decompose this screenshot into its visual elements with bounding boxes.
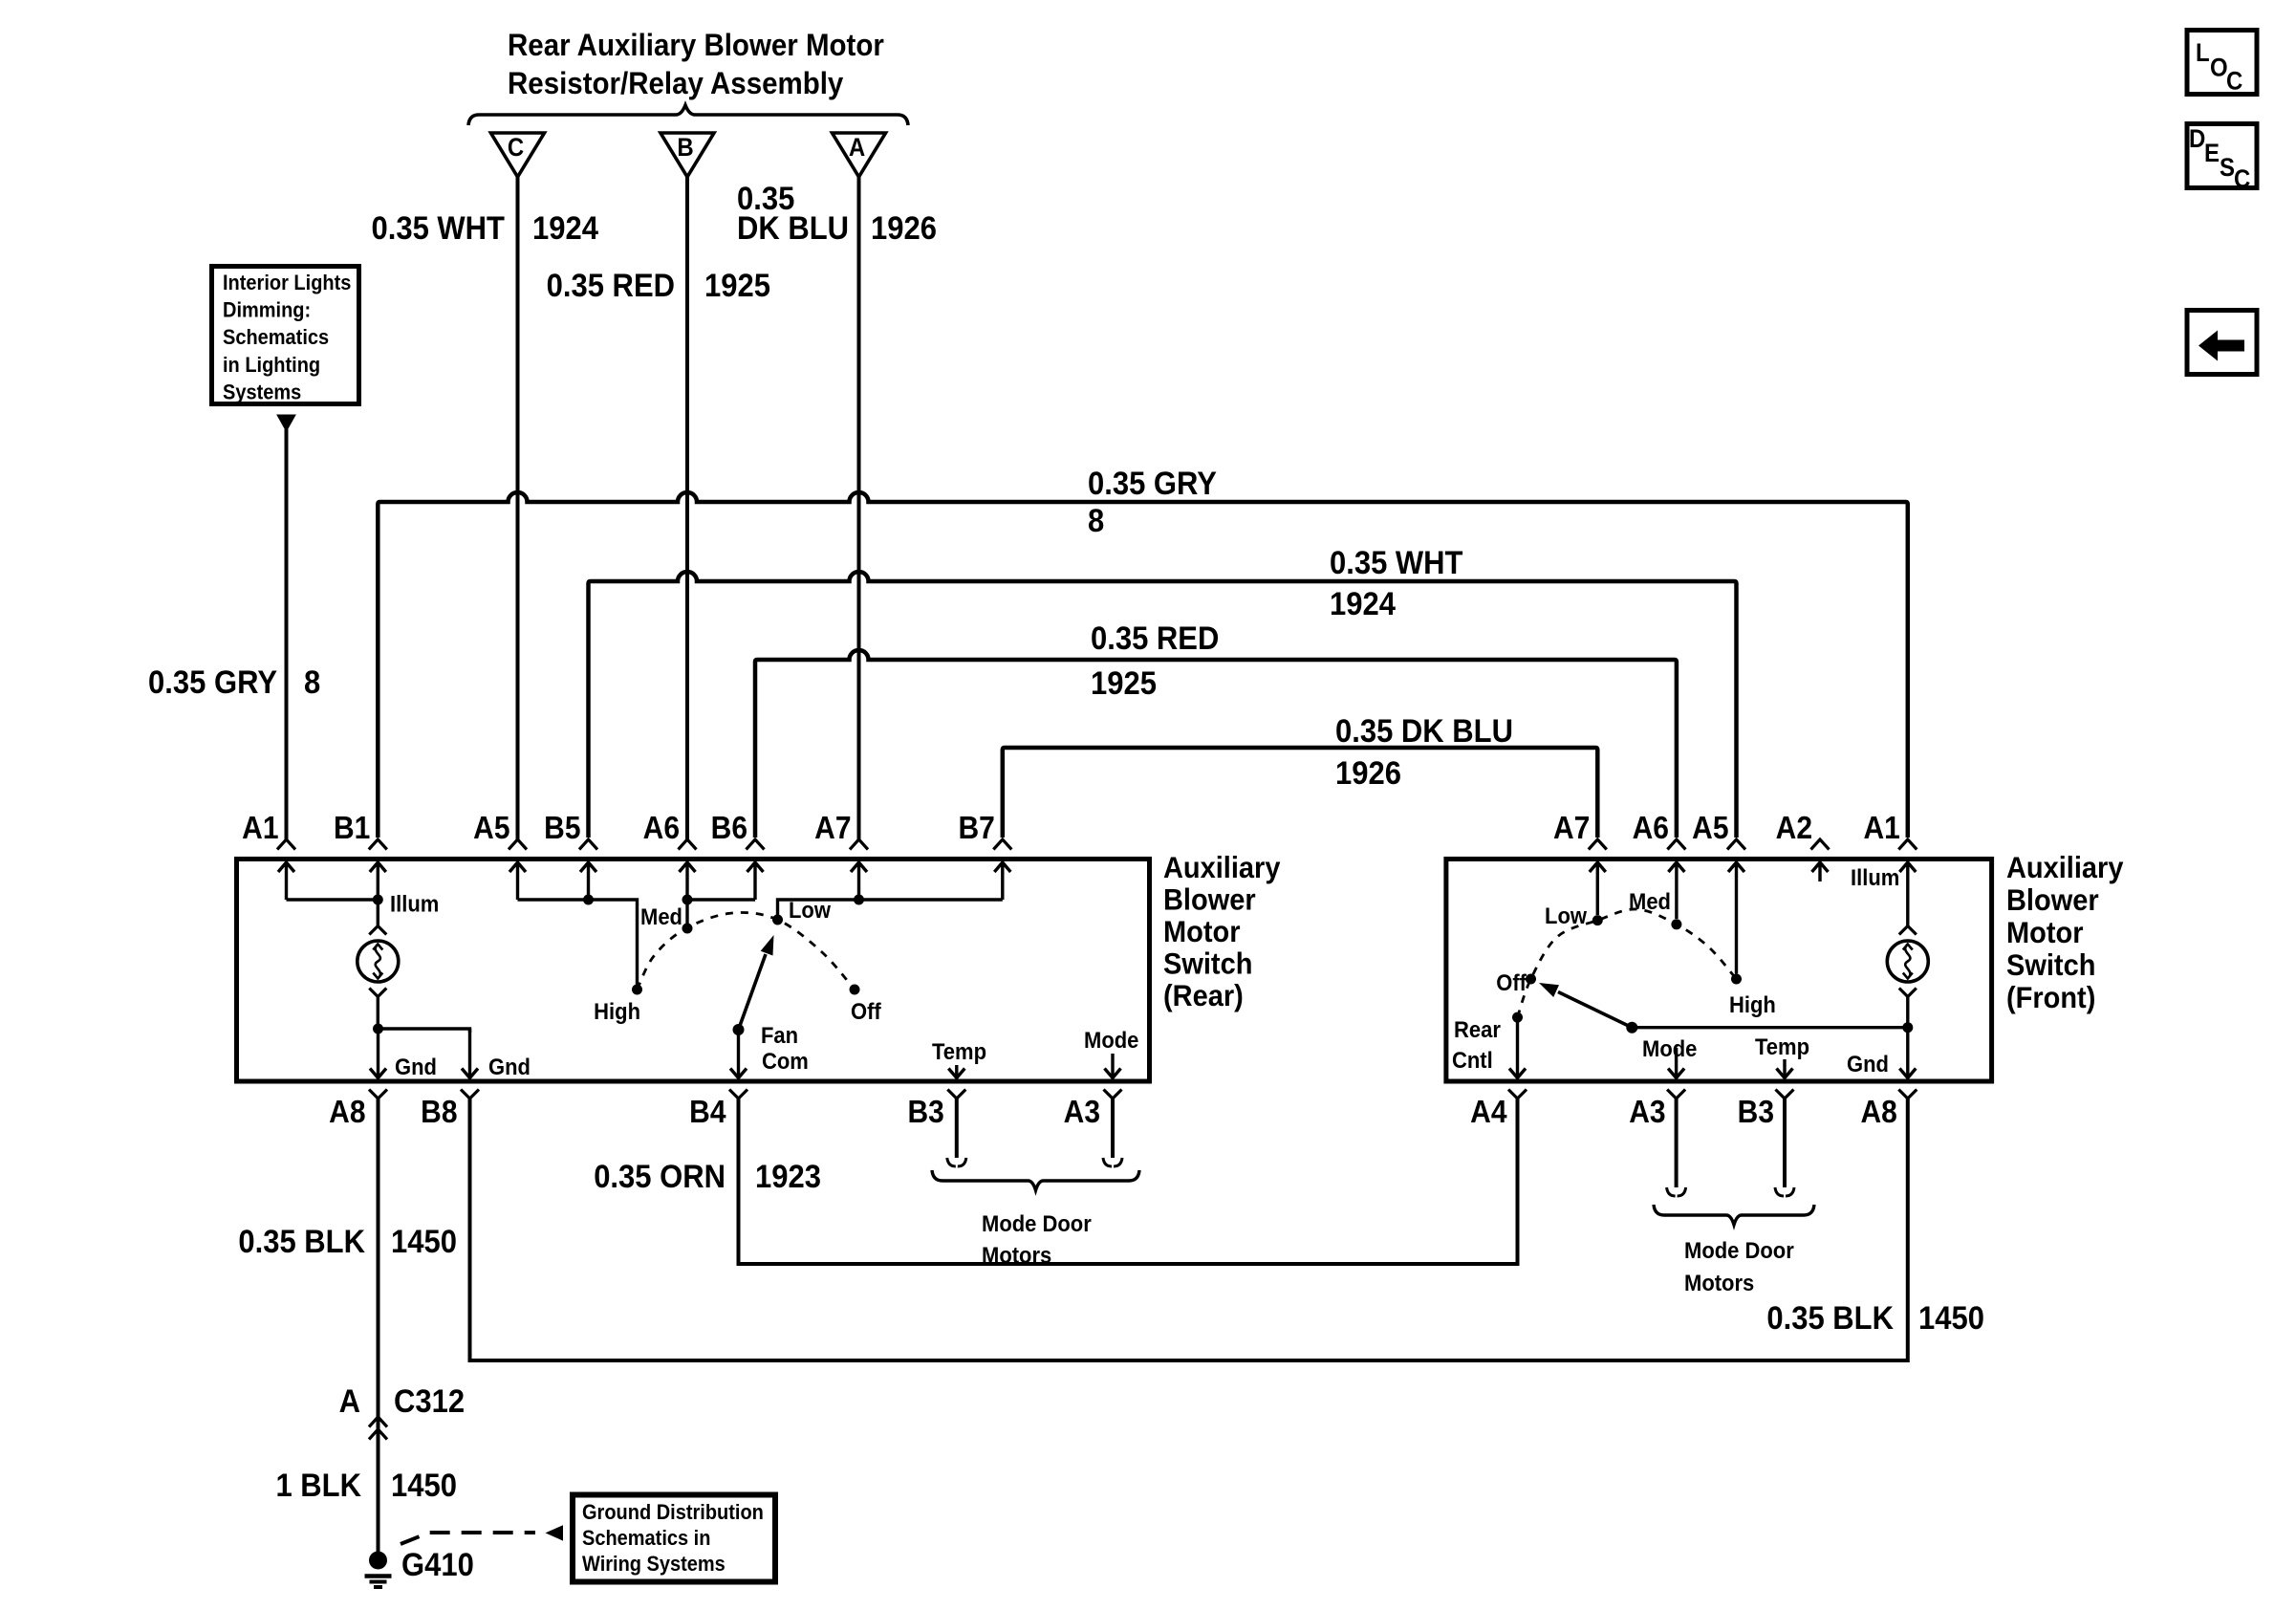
pin A1 internal arrow (rear switch) — [278, 862, 294, 901]
wire 1926 DK BLU bus from pin B7 to front switch pin A7 — [1003, 748, 1598, 838]
wire pin A3 to mode door motors (rear) — [1111, 1099, 1115, 1158]
svg-text:0.35 WHT: 0.35 WHT — [372, 210, 506, 247]
wire 1450 BLK from pin A8 to G410 — [377, 1099, 380, 1562]
pin A5 internal arrow (front) — [1728, 862, 1744, 974]
wire 1924 WHT bus from pin B5 to front switch pin A5 — [589, 572, 1737, 838]
contact Off (rear switch) — [850, 985, 860, 995]
pin A5 connector chevron (rear switch) — [509, 839, 527, 850]
pin B3 connector (front switch bottom) — [1776, 1090, 1794, 1099]
lamp filament symbol (rear) — [373, 945, 382, 979]
Ground Distribution reference box — [573, 1495, 775, 1582]
svg-text:Motors: Motors — [982, 1242, 1051, 1268]
svg-text:G410: G410 — [401, 1547, 474, 1583]
wire lamp to gnd junction (front) — [1906, 997, 1909, 1028]
svg-text:L: L — [2196, 39, 2210, 67]
svg-text:Motor: Motor — [2006, 916, 2084, 950]
svg-text:C: C — [2234, 165, 2250, 193]
svg-text:B3: B3 — [1738, 1094, 1774, 1130]
svg-text:B6: B6 — [711, 810, 747, 846]
pin A6 internal arrow (front) — [1668, 862, 1684, 920]
svg-text:A7: A7 — [1553, 810, 1590, 846]
svg-text:Motor: Motor — [1163, 915, 1241, 949]
contact Low (front switch) — [1592, 915, 1603, 925]
wire illum rail to lamp (rear) — [377, 900, 379, 926]
svg-text:1925: 1925 — [704, 268, 770, 304]
svg-text:A3: A3 — [1629, 1094, 1665, 1130]
svg-text:E: E — [2204, 140, 2220, 167]
pin A8 internal Gnd arrow (rear) — [370, 1029, 386, 1078]
wire 1923 ORN from pin B4 to pin A4 — [739, 1099, 1518, 1264]
svg-text:C312: C312 — [394, 1383, 465, 1420]
svg-text:0.35 GRY: 0.35 GRY — [1088, 466, 1217, 502]
svg-text:C: C — [2226, 67, 2242, 95]
pin A1 connector chevron (front switch) — [1898, 839, 1917, 850]
pin B1 connector chevron (rear switch) — [369, 839, 387, 850]
contact Rear Cntl (front switch) — [1512, 1012, 1523, 1023]
contact High (rear switch) — [632, 985, 642, 995]
lamp connector chevron above (rear) — [369, 926, 386, 935]
pin A2 internal arrow (front) — [1812, 862, 1829, 882]
svg-text:A8: A8 — [1860, 1094, 1896, 1130]
svg-text:0.35 DK BLU: 0.35 DK BLU — [1335, 713, 1513, 750]
svg-text:Motors: Motors — [1684, 1270, 1754, 1295]
pin B8 internal Gnd arrow (rear) — [462, 1029, 478, 1078]
pin A1 connector chevron (rear switch) — [277, 839, 295, 850]
svg-text:O: O — [2210, 54, 2228, 81]
contact Med (rear switch) — [682, 924, 693, 934]
svg-text:S: S — [2220, 154, 2235, 182]
connector cup A3 (rear) — [1103, 1158, 1122, 1166]
svg-text:8: 8 — [1088, 503, 1104, 539]
connector cup B3 (rear) — [947, 1158, 966, 1166]
svg-text:Interior Lights: Interior Lights — [223, 272, 351, 294]
svg-text:Off: Off — [1496, 969, 1527, 995]
pin B3 internal Temp arrow (rear) — [948, 1065, 964, 1078]
contact High (front switch) — [1731, 974, 1742, 985]
wire 8 GRY from Interior Lights box to pin A1 — [285, 429, 289, 839]
svg-text:0.35 RED: 0.35 RED — [547, 268, 675, 304]
svg-text:1450: 1450 — [391, 1224, 457, 1260]
fan switch dashed arc (front) — [1518, 909, 1737, 1017]
svg-text:1923: 1923 — [755, 1159, 821, 1195]
Interior Lights Dimming reference box — [212, 267, 359, 404]
svg-text:A6: A6 — [1633, 810, 1669, 846]
fan switch dashed arc (rear) — [638, 912, 856, 990]
svg-text:0.35 GRY: 0.35 GRY — [148, 664, 277, 701]
svg-text:Mode: Mode — [1084, 1027, 1139, 1053]
pin B3 connector (rear switch bottom) — [947, 1090, 965, 1099]
svg-text:Med: Med — [640, 903, 682, 929]
svg-text:1926: 1926 — [871, 210, 937, 247]
svg-text:A7: A7 — [814, 810, 851, 846]
svg-text:1450: 1450 — [391, 1468, 457, 1504]
back arrow icon — [2199, 331, 2244, 361]
pin A3 internal Mode arrow (front) — [1668, 1048, 1684, 1078]
svg-text:Low: Low — [789, 897, 832, 923]
svg-text:B7: B7 — [958, 810, 994, 846]
mode door motors brace (front) — [1654, 1205, 1814, 1225]
svg-text:High: High — [594, 998, 640, 1024]
pin B8 connector (rear switch bottom) — [461, 1090, 479, 1099]
pin A1 internal arrow (front) — [1899, 862, 1916, 927]
connector triangle C of resistor/relay assembly — [491, 133, 545, 177]
svg-text:Dimming:: Dimming: — [223, 299, 311, 322]
svg-text:Switch: Switch — [2006, 948, 2095, 983]
svg-text:A1: A1 — [1863, 810, 1899, 846]
svg-text:A8: A8 — [329, 1094, 365, 1130]
svg-text:A1: A1 — [242, 810, 278, 846]
inline connector C312 symbol — [369, 1417, 387, 1440]
pin B5 connector chevron (rear switch) — [579, 839, 597, 850]
svg-text:Systems: Systems — [223, 381, 301, 404]
svg-text:1926: 1926 — [1335, 755, 1401, 792]
wire pin B3 to mode door motors (front) — [1783, 1099, 1787, 1187]
svg-text:B1: B1 — [334, 810, 370, 846]
pin A8 internal Gnd arrow (front) — [1899, 1028, 1916, 1078]
svg-text:1450: 1450 — [1918, 1300, 1984, 1337]
svg-text:0.35 ORN: 0.35 ORN — [594, 1159, 726, 1195]
svg-text:Cntl: Cntl — [1452, 1047, 1493, 1073]
svg-text:8: 8 — [304, 664, 320, 701]
pin A4 internal Rear Cntl arrow (front) — [1509, 1017, 1526, 1078]
wire 1926 from connector A to pin A7 — [857, 177, 861, 839]
junction B1/illum (rear) — [373, 895, 383, 905]
stub A6 to Med contact (rear) — [685, 900, 688, 926]
svg-text:B4: B4 — [689, 1094, 726, 1130]
svg-text:Wiring Systems: Wiring Systems — [582, 1553, 726, 1576]
svg-text:Ground Distribution: Ground Distribution — [582, 1501, 764, 1524]
pin B1 internal arrow (rear switch) — [370, 862, 386, 901]
wire lamp to ground junction (rear) — [377, 997, 379, 1030]
svg-text:Schematics: Schematics — [223, 326, 329, 349]
svg-text:Switch: Switch — [1163, 946, 1252, 981]
svg-text:in Lighting: in Lighting — [223, 354, 320, 377]
svg-text:A2: A2 — [1776, 810, 1812, 846]
svg-text:A3: A3 — [1064, 1094, 1100, 1130]
fan switch wiper arrow (front) — [1558, 992, 1632, 1028]
wire pin A3 to mode door motors (front) — [1675, 1099, 1679, 1187]
contact Med (front switch) — [1671, 919, 1681, 929]
pin A2 connector chevron (front switch) — [1811, 839, 1830, 850]
svg-text:1924: 1924 — [1330, 586, 1396, 622]
svg-text:Gnd: Gnd — [395, 1054, 437, 1079]
pivot rail to A8 junction (front) — [1632, 1026, 1908, 1029]
rail A5 to High stub (rear) — [518, 900, 638, 990]
svg-text:Com: Com — [762, 1048, 809, 1074]
pin A8 connector (rear switch bottom) — [369, 1090, 387, 1099]
svg-text:Illum: Illum — [390, 891, 439, 917]
wire ground branch to B8 (rear) — [379, 1029, 470, 1033]
pin B3 internal Temp arrow (front) — [1777, 1059, 1793, 1078]
svg-text:Temp: Temp — [1755, 1033, 1809, 1059]
lamp filament symbol (front) — [1903, 945, 1913, 979]
svg-text:0.35 BLK: 0.35 BLK — [1766, 1300, 1894, 1337]
pin A6 connector chevron (front switch) — [1667, 839, 1685, 850]
contact Low (rear switch) — [772, 915, 783, 925]
fan switch wiper arrow (rear) — [739, 954, 767, 1030]
svg-text:B5: B5 — [544, 810, 580, 846]
illum rail A1-B1 (rear switch) — [287, 898, 379, 901]
wire 1450 BLK from pin B8 to front pin A8 — [470, 1099, 1908, 1360]
wire 1925 from connector B to pin A6 — [685, 177, 689, 839]
wire pin B3 to mode door motors (rear) — [955, 1099, 959, 1158]
wire 1925 RED bus from pin B6 to front switch pin A6 — [755, 650, 1677, 838]
svg-text:A: A — [849, 134, 865, 162]
svg-text:Illum: Illum — [1851, 864, 1899, 890]
svg-text:Blower: Blower — [1163, 882, 1256, 917]
pin B7 connector chevron (rear switch) — [993, 839, 1011, 850]
illumination lamp (rear switch) — [357, 941, 399, 982]
junction A6 on rail (rear) — [682, 895, 693, 905]
pin A5 connector chevron (front switch) — [1727, 839, 1745, 850]
svg-text:Resistor/Relay Assembly: Resistor/Relay Assembly — [508, 66, 844, 101]
svg-text:1925: 1925 — [1091, 665, 1157, 702]
junction B5 on A5 rail (rear) — [583, 895, 594, 905]
rail A6-B6 (rear) — [687, 898, 755, 901]
pin B7 internal arrow (rear switch) — [994, 862, 1010, 901]
pin A3 internal Mode arrow (rear) — [1105, 1054, 1121, 1078]
pin B6 connector chevron (rear switch) — [747, 839, 765, 850]
pin B4 connector (rear switch bottom) — [729, 1090, 747, 1099]
back arrow navigation box — [2187, 311, 2257, 375]
rail B7 to Low stub (rear) — [778, 900, 1003, 920]
connector cup A3 (front) — [1667, 1187, 1686, 1196]
LOC navigation box — [2187, 31, 2257, 95]
dashed reference pointer to Ground Distribution box — [401, 1533, 535, 1544]
DESC navigation box — [2187, 124, 2257, 188]
svg-text:Mode: Mode — [1642, 1035, 1698, 1061]
svg-text:High: High — [1729, 991, 1776, 1017]
Auxiliary Blower Motor Switch (Rear) box — [237, 859, 1150, 1082]
fan switch pivot Fan Com (rear) — [733, 1024, 745, 1035]
pin A3 connector (rear switch bottom) — [1104, 1090, 1122, 1099]
pin B6 internal arrow (rear switch) — [747, 862, 764, 901]
svg-text:Off: Off — [851, 998, 881, 1024]
svg-text:DK BLU: DK BLU — [737, 210, 849, 247]
svg-text:1924: 1924 — [532, 210, 598, 247]
svg-text:A5: A5 — [473, 810, 509, 846]
connector triangle A of resistor/relay assembly — [833, 133, 886, 177]
svg-text:Rear: Rear — [1454, 1016, 1501, 1042]
svg-text:Schematics in: Schematics in — [582, 1527, 710, 1550]
junction lamp/rail/Gnd (front) — [1902, 1022, 1913, 1033]
svg-text:B8: B8 — [421, 1094, 457, 1130]
wire 8 GRY bus from pin B1 to front switch pin A1 — [378, 492, 1908, 838]
svg-text:D: D — [2189, 125, 2205, 153]
svg-text:Mode Door: Mode Door — [1684, 1237, 1794, 1263]
pin A7 connector chevron (front switch) — [1589, 839, 1607, 850]
pin A6 connector chevron (rear switch) — [679, 839, 697, 850]
contact Off (front switch) — [1526, 974, 1536, 985]
pin A6 internal arrow (rear switch) — [680, 862, 696, 901]
svg-text:B: B — [677, 134, 693, 162]
pin A7 connector chevron (rear switch) — [850, 839, 868, 850]
connector triangle B of resistor/relay assembly — [661, 133, 714, 177]
pin A4 connector (front switch bottom) — [1508, 1090, 1527, 1099]
svg-text:A5: A5 — [1692, 810, 1728, 846]
svg-text:0.35 BLK: 0.35 BLK — [238, 1224, 365, 1260]
svg-text:B3: B3 — [907, 1094, 943, 1130]
pin B4 internal arrow (rear) — [730, 1030, 747, 1078]
svg-text:(Rear): (Rear) — [1163, 979, 1244, 1013]
arrow from Interior Lights box — [277, 415, 295, 431]
svg-text:Blower: Blower — [2006, 883, 2099, 918]
wire 1924 from connector C to pin A5 — [516, 177, 520, 839]
svg-text:Auxiliary: Auxiliary — [1163, 851, 1280, 885]
assembly brace over connectors C B A — [468, 105, 908, 125]
svg-text:(Front): (Front) — [2006, 981, 2095, 1015]
pin A7 internal arrow (rear switch) — [851, 862, 867, 901]
svg-text:0.35 RED: 0.35 RED — [1091, 620, 1219, 657]
pin A8 connector (front switch bottom) — [1898, 1090, 1917, 1099]
svg-text:0.35 WHT: 0.35 WHT — [1330, 545, 1463, 581]
svg-text:Auxiliary: Auxiliary — [2006, 851, 2123, 885]
lamp connector chevron below (front) — [1899, 989, 1917, 997]
svg-text:C: C — [508, 134, 524, 162]
svg-text:A6: A6 — [643, 810, 680, 846]
svg-text:1 BLK: 1 BLK — [275, 1468, 361, 1504]
junction lamp ground branch (rear) — [373, 1024, 383, 1034]
Auxiliary Blower Motor Switch (Front) box — [1446, 859, 1992, 1082]
svg-text:Fan: Fan — [761, 1022, 798, 1048]
mode door motors brace (rear) — [932, 1170, 1139, 1190]
svg-text:A: A — [339, 1383, 360, 1420]
junction A7 on rail (rear) — [854, 895, 864, 905]
svg-text:A4: A4 — [1470, 1094, 1507, 1130]
pin A3 connector (front switch bottom) — [1667, 1090, 1685, 1099]
svg-text:Mode Door: Mode Door — [982, 1210, 1092, 1236]
lamp connector chevron above (front) — [1899, 926, 1917, 935]
illumination lamp (front switch) — [1887, 941, 1928, 982]
fan switch pivot (front) — [1626, 1022, 1637, 1033]
pin B5 internal arrow (rear switch) — [580, 862, 596, 901]
svg-text:Temp: Temp — [932, 1038, 986, 1064]
pin A7 internal arrow (front) — [1590, 862, 1606, 916]
connector cup B3 (front) — [1775, 1187, 1794, 1196]
svg-text:Gnd: Gnd — [1847, 1051, 1889, 1077]
pin A5 internal arrow (rear switch) — [509, 862, 526, 901]
lamp connector chevron below (rear) — [369, 989, 386, 997]
svg-text:Gnd: Gnd — [488, 1054, 531, 1079]
svg-text:Rear Auxiliary Blower Motor: Rear Auxiliary Blower Motor — [508, 28, 884, 63]
svg-text:Low: Low — [1545, 903, 1588, 928]
ground G410 symbol — [369, 1552, 387, 1570]
